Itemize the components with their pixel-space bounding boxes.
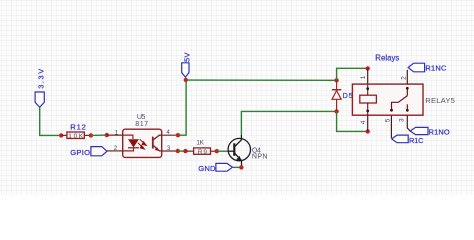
junction dot D5 cathode [334,78,338,82]
port R1NO [410,127,450,136]
svg-text:R1NC: R1NC [425,64,447,73]
svg-text:4: 4 [360,120,367,124]
junction dot relay pin4 [366,129,370,133]
svg-text:R12: R12 [70,123,86,132]
relay RELAY5 body [352,84,423,115]
junction dot Q4 base [215,149,219,153]
junction dot R12 pin2 [89,133,93,137]
relay switch contact dots [390,109,393,112]
svg-text:2: 2 [400,76,407,80]
svg-text:R1C: R1C [409,136,424,145]
relay pin 5 [390,115,392,138]
wire Q4 collector to D5 [241,111,336,134]
port GND [198,163,232,172]
relay pin 1 [367,68,369,84]
svg-text:1K: 1K [196,139,204,146]
port GPIO [70,147,107,158]
wire 5V rail to D5 [186,79,337,81]
svg-text:10K: 10K [68,133,84,140]
relay pin 3 [407,115,410,131]
svg-text:3: 3 [398,118,405,122]
junction dot U5 pin3 [176,149,180,153]
wire D5 top to relay pin1 [337,68,368,80]
optocoupler U5 [123,129,162,157]
relay coil [360,85,377,115]
U5 LED light arrows [138,139,146,149]
svg-text:R9: R9 [198,149,207,156]
power port 3.3V [35,69,46,108]
port R1C [392,135,424,145]
svg-text:3.3V: 3.3V [37,69,46,89]
svg-text:5V: 5V [182,52,191,62]
wire U5 pin4 to 5V [178,80,186,135]
U5 phototransistor [153,135,162,151]
wire GND to Q4 emitter [232,166,241,168]
wire D5 bottom to relay pin4 [337,111,368,131]
svg-text:817: 817 [135,119,148,128]
junction dot U5 pin1 [105,133,109,137]
diode D5 [332,80,341,111]
junction dot R12 pin1 [59,133,63,137]
junction dot Q4 emitter [239,165,243,169]
U5 pin 3 [162,150,178,152]
transistor Q4 [217,135,251,168]
svg-text:GND: GND [198,164,216,173]
U5 pin 4 [162,134,179,136]
junction dot relay pin1 [366,66,370,70]
junction dot D5 anode [334,109,338,113]
port R1NC [408,63,447,72]
svg-text:D5: D5 [343,91,353,100]
svg-text:1: 1 [360,75,367,79]
junction dot U5 pin4 [176,133,180,137]
relay switch [392,88,408,110]
svg-text:R1NO: R1NO [429,127,450,136]
resistor R12 [61,132,91,139]
resistor R9 [185,148,216,154]
svg-text:NPN: NPN [252,154,268,161]
U5 phototransistor emitter arrow [155,147,160,151]
U5 pin 2 [107,150,123,152]
wire R12 to U5 pin1 [91,134,107,136]
wire 3.3V to R12 [40,107,62,135]
power port 5V [182,52,192,77]
U5 pin 1 [107,134,123,136]
svg-text:GPIO: GPIO [70,148,90,157]
relay pin 2 [406,70,408,84]
U5 LED [123,135,139,151]
relay pin 4 [367,115,369,131]
wire U5 pin3 to R9 [178,150,186,152]
svg-text:RELAY5: RELAY5 [425,96,455,105]
svg-text:Relays: Relays [375,53,399,62]
junction dot 5V [184,78,188,82]
junction dot R9 pin1 [183,149,187,153]
svg-text:5: 5 [384,118,391,122]
